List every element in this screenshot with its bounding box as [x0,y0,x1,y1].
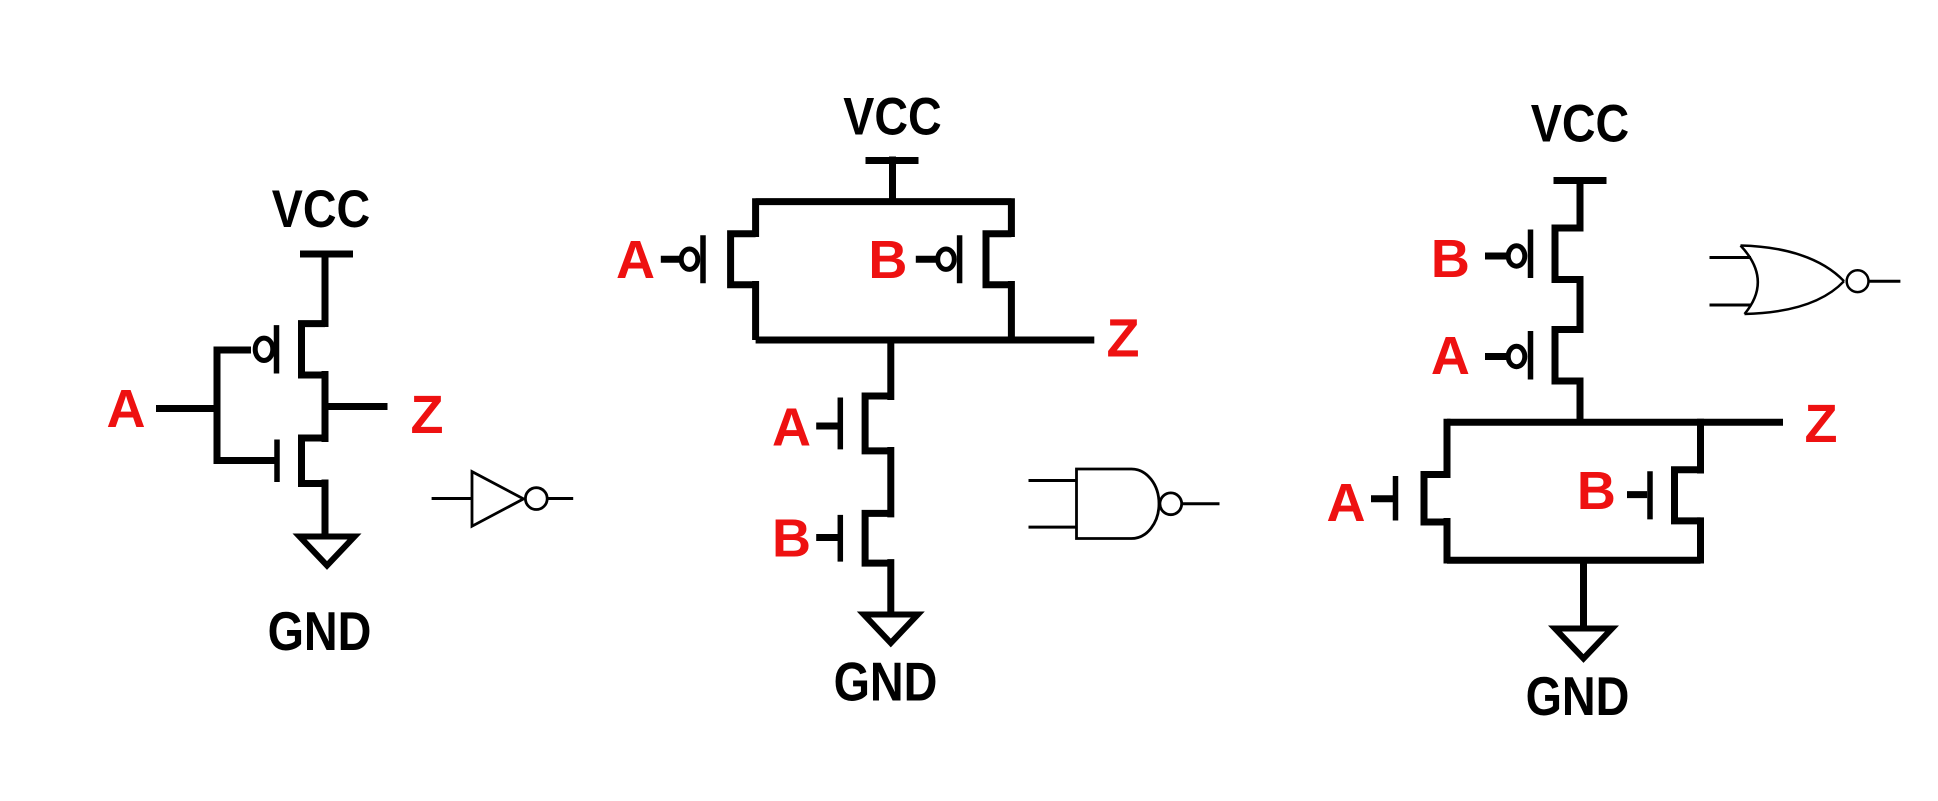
wire NMOS B drain drop (NOR) [1697,419,1704,474]
wire NMOS B gate lead (NOR) [1627,491,1647,498]
transistor Q4 PMOS B (NAND) [938,234,1012,285]
ground symbol (NAND) [864,615,918,644]
svg-text:A: A [772,398,811,458]
gate symbol NOR U3 [1710,246,1901,315]
wire NMOS A source to NMOS B drain (NAND) [887,447,894,517]
wire NMOS A gate lead (NOR) [1371,495,1393,502]
svg-text:VCC: VCC [272,179,370,238]
svg-text:B: B [1431,229,1470,289]
wire output node to NMOS A drain (NAND) [887,337,894,400]
wire VCC rail (NAND) [889,157,896,206]
wire PMOS drains to output Z (NAND) [756,281,1095,340]
svg-text:B: B [868,230,907,290]
wire NMOS gate lead (inverter) [217,457,275,464]
svg-text:A: A [1431,326,1470,386]
wire PMOS gate lead (inverter) [217,347,251,354]
transistor Q9 NMOS A (NOR) [1396,475,1448,523]
svg-text:GND: GND [834,651,938,712]
svg-text:A: A [107,379,146,439]
wire PMOS A gate lead (NAND) [661,256,681,263]
ground symbol (inverter) [300,537,355,566]
wire NMOS source rail (NOR) [1447,557,1701,564]
transistor Q1 PMOS (inverter) [255,324,325,375]
wire PMOS B source to PMOS A drain (NOR) [1577,276,1584,333]
gate symbol NAND U2 [1029,469,1220,539]
transistor Q6 NMOS B (NAND) [840,513,891,563]
svg-text:Z: Z [411,385,444,445]
wire PMOS B gate lead (NOR) [1485,253,1509,260]
svg-text:Z: Z [1107,309,1140,369]
svg-text:VCC: VCC [843,87,941,146]
wire input A lead (inverter) [156,405,221,412]
transistor Q7 PMOS B (NOR) [1508,228,1580,280]
svg-text:GND: GND [268,600,372,661]
transistor Q5 NMOS A (NAND) [840,396,891,451]
wire PMOS source rail top (NAND) [756,198,1012,237]
svg-text:A: A [616,230,655,290]
power symbol VCC (NOR) [1554,177,1607,184]
wire NMOS B gate lead (NAND) [816,534,838,541]
transistor Q2 NMOS (inverter) [277,438,325,484]
svg-text:B: B [1577,461,1616,521]
svg-text:GND: GND [1526,665,1630,726]
svg-text:A: A [1327,473,1366,533]
gate symbol NOT U1 [432,472,574,527]
wire NMOS A drain drop (NOR) [1444,419,1451,478]
transistor Q3 PMOS A (NAND) [681,234,755,285]
wire input stem (inverter) [214,347,221,465]
wire PMOS A source to output node (NOR) [1577,378,1584,426]
wire PMOS B gate lead (NAND) [916,256,937,263]
ground symbol (NOR) [1555,629,1612,659]
wire NMOS B source to ground (NAND) [887,559,894,614]
wire NMOS B source drop (NOR) [1697,517,1704,563]
svg-text:VCC: VCC [1531,94,1629,153]
wire VCC rail to PMOS source (inverter) [322,251,329,327]
wire output Z lead (inverter) [325,403,388,410]
wire NMOS A source drop (NOR) [1444,518,1451,564]
power symbol VCC (NAND) [866,157,919,164]
wire NMOS source to ground (inverter) [322,480,329,537]
wire rail to ground (NOR) [1580,557,1587,628]
wire VCC rail (NOR) [1577,178,1584,232]
svg-text:B: B [772,509,811,569]
wire NMOS A gate lead (NAND) [816,423,838,430]
wire PMOS drain to NMOS drain (inverter) [322,371,329,442]
transistor Q8 PMOS A (NOR) [1508,330,1580,382]
power symbol VCC (inverter) [300,251,353,258]
wire PMOS A gate lead (NOR) [1485,353,1509,360]
wire NMOS drain rail and output Z (NOR) [1447,419,1783,426]
transistor Q10 NMOS B (NOR) [1650,470,1701,521]
svg-text:Z: Z [1805,394,1838,454]
